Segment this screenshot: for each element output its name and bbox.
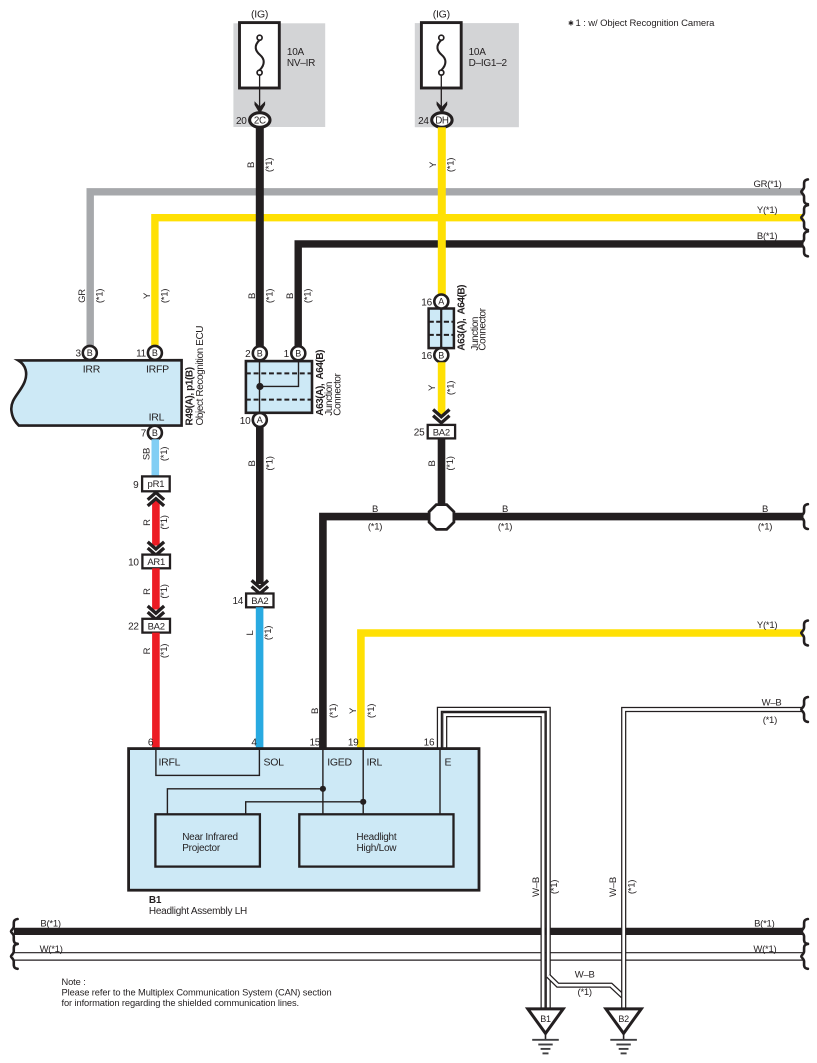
svg-text:(*1): (*1) [95, 289, 106, 303]
svg-text:(*1): (*1) [498, 521, 512, 532]
svg-text:B: B [247, 293, 258, 299]
svg-text:IRFP: IRFP [146, 363, 169, 375]
svg-text:pR1: pR1 [148, 479, 165, 490]
svg-text:SOL: SOL [264, 756, 285, 768]
svg-text:4: 4 [251, 737, 257, 748]
svg-text:Y: Y [427, 384, 438, 391]
svg-text:W–B: W–B [762, 697, 782, 708]
svg-text:(*1): (*1) [626, 880, 637, 894]
svg-text:(*1): (*1) [445, 456, 456, 470]
svg-text:IRFL: IRFL [159, 756, 181, 768]
svg-text:15: 15 [309, 737, 320, 748]
svg-text:3: 3 [75, 349, 81, 360]
svg-text:W–B: W–B [531, 877, 542, 897]
svg-text:24: 24 [418, 116, 429, 127]
svg-text:Y: Y [142, 292, 153, 299]
svg-text:Connector: Connector [478, 307, 489, 350]
svg-text:22: 22 [128, 622, 139, 633]
svg-text:(*1): (*1) [446, 158, 457, 172]
svg-text:Object Recognition ECU: Object Recognition ECU [195, 326, 206, 426]
svg-text:14: 14 [232, 596, 243, 607]
svg-text:NV–IR: NV–IR [287, 58, 315, 69]
svg-text:B: B [246, 162, 257, 168]
svg-text:B(*1): B(*1) [754, 918, 774, 929]
svg-text:R: R [142, 588, 153, 595]
svg-text:for information regarding the: for information regarding the shielded c… [62, 998, 300, 1008]
svg-text:B(*1): B(*1) [40, 918, 60, 929]
svg-text:B: B [427, 460, 438, 466]
svg-text:(*1): (*1) [263, 626, 274, 640]
svg-text:16: 16 [421, 297, 432, 308]
svg-text:GR: GR [77, 289, 88, 303]
svg-text:B: B [295, 348, 301, 358]
svg-text:16: 16 [424, 737, 435, 748]
svg-text:W(*1): W(*1) [40, 944, 63, 955]
svg-text:High/Low: High/Low [357, 843, 398, 854]
svg-text:11: 11 [136, 349, 147, 360]
svg-text:(*1): (*1) [159, 447, 170, 461]
svg-text:(*1): (*1) [264, 158, 275, 172]
svg-text:A63(A), A64(B): A63(A), A64(B) [457, 285, 468, 351]
svg-text:(*1): (*1) [366, 704, 377, 718]
svg-text:Near Infrared: Near Infrared [182, 832, 238, 843]
svg-text:(*1): (*1) [328, 704, 339, 718]
svg-text:B: B [502, 504, 508, 515]
svg-text:B2: B2 [618, 1014, 629, 1024]
svg-text:Headlight: Headlight [356, 832, 396, 843]
svg-text:IGED: IGED [327, 756, 352, 768]
svg-text:10: 10 [128, 557, 139, 568]
svg-text:B: B [310, 708, 321, 714]
svg-text:(*1): (*1) [368, 521, 382, 532]
svg-text:(IG): (IG) [433, 9, 450, 21]
svg-text:10A: 10A [287, 47, 305, 58]
svg-text:(*1): (*1) [159, 584, 170, 598]
svg-text:B: B [152, 348, 158, 358]
svg-text:Headlight Assembly LH: Headlight Assembly LH [149, 906, 247, 917]
svg-text:20: 20 [236, 116, 247, 127]
svg-text:(*1): (*1) [758, 521, 772, 532]
svg-text:B1: B1 [540, 1014, 551, 1024]
svg-text:2: 2 [245, 349, 251, 360]
svg-text:D–IG1–2: D–IG1–2 [469, 58, 508, 69]
svg-text:(*1): (*1) [549, 880, 560, 894]
svg-text:Y: Y [348, 707, 359, 714]
svg-text:7: 7 [141, 429, 147, 440]
svg-text:✱: ✱ [568, 20, 574, 28]
svg-text:6: 6 [148, 737, 154, 748]
svg-text:9: 9 [133, 480, 139, 491]
svg-text:B: B [152, 428, 158, 438]
svg-text:16: 16 [421, 351, 432, 362]
svg-text:B(*1): B(*1) [757, 231, 777, 242]
svg-text:Y: Y [428, 161, 439, 168]
svg-text:Projector: Projector [182, 843, 221, 854]
svg-text:10A: 10A [469, 47, 487, 58]
svg-text:(*1): (*1) [160, 289, 171, 303]
svg-text:B: B [372, 504, 378, 515]
svg-text:E: E [445, 756, 452, 768]
svg-text:B: B [87, 348, 93, 358]
svg-text:IRL: IRL [367, 756, 383, 768]
svg-text:B: B [762, 504, 768, 515]
svg-text:1 : w/ Object Recognition Came: 1 : w/ Object Recognition Camera [576, 18, 716, 29]
svg-text:2C: 2C [254, 116, 266, 127]
svg-text:A: A [257, 415, 263, 425]
svg-text:IRR: IRR [83, 363, 101, 375]
svg-text:SB: SB [141, 448, 152, 460]
svg-text:B1: B1 [149, 895, 162, 906]
svg-text:L: L [245, 630, 256, 635]
svg-text:19: 19 [348, 737, 359, 748]
svg-text:(*1): (*1) [578, 987, 592, 998]
svg-text:R: R [142, 519, 153, 526]
svg-text:Y(*1): Y(*1) [757, 620, 777, 631]
svg-text:AR1: AR1 [147, 557, 165, 568]
svg-text:GR(*1): GR(*1) [753, 179, 781, 190]
svg-text:10: 10 [240, 416, 251, 427]
svg-text:W–B: W–B [575, 970, 595, 981]
svg-text:(*1): (*1) [445, 381, 456, 395]
svg-text:W(*1): W(*1) [753, 944, 776, 955]
svg-text:1: 1 [284, 349, 290, 360]
svg-text:BA2: BA2 [251, 596, 268, 607]
svg-text:(*1): (*1) [159, 515, 170, 529]
svg-text:(*1): (*1) [265, 456, 276, 470]
svg-text:B: B [438, 350, 444, 360]
svg-text:BA2: BA2 [433, 427, 450, 438]
svg-text:(*1): (*1) [763, 715, 777, 726]
svg-text:A: A [438, 297, 444, 307]
svg-text:DH: DH [435, 116, 449, 127]
svg-text:(*1): (*1) [265, 289, 276, 303]
svg-text:IRL: IRL [149, 412, 165, 424]
svg-text:B: B [285, 293, 296, 299]
svg-text:(*1): (*1) [303, 289, 314, 303]
svg-text:Y(*1): Y(*1) [757, 205, 777, 216]
svg-text:25: 25 [414, 428, 425, 439]
svg-text:Connector: Connector [332, 372, 343, 415]
svg-text:R49(A), p1(B): R49(A), p1(B) [185, 367, 196, 425]
svg-text:Note :: Note : [62, 977, 86, 987]
svg-text:Please refer to the Multiplex: Please refer to the Multiplex Communicat… [62, 988, 332, 998]
svg-text:B: B [247, 460, 258, 466]
svg-text:W–B: W–B [608, 877, 619, 897]
svg-text:B: B [257, 348, 263, 358]
svg-text:BA2: BA2 [148, 621, 165, 632]
svg-text:(IG): (IG) [251, 9, 268, 21]
svg-text:(*1): (*1) [159, 644, 170, 658]
svg-text:R: R [142, 647, 153, 654]
